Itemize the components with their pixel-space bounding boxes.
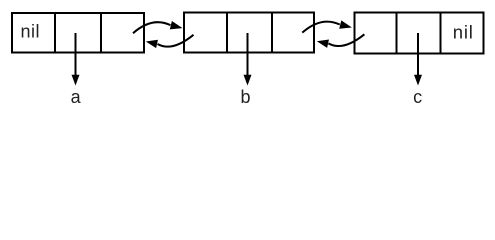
node 3 divider 2 (440, 13, 442, 54)
prev pointer arrow node3 to node2: curve (328, 34, 364, 46)
prev pointer arrow node2 to node1: head (146, 40, 158, 48)
node 2 divider 2 (271, 13, 273, 53)
node 1 divider 1 (54, 13, 56, 53)
node 2 box (184, 13, 314, 53)
svg-text:nil: nil (453, 21, 474, 42)
value arrow node1 to a: head (72, 75, 80, 86)
node 3 divider 1 (396, 13, 398, 54)
value arrow node3 to c: line (417, 33, 419, 76)
value arrow node2 to b: head (244, 75, 252, 86)
next pointer arrow node2 to node3: curve (302, 22, 340, 33)
next pointer arrow node1 to node2: curve (133, 22, 171, 33)
value arrow node1 to a: line (75, 33, 77, 76)
value arrow node3 to c: head (414, 75, 422, 86)
svg-text:c: c (413, 87, 422, 107)
value arrow node2 to b: line (247, 33, 249, 76)
svg-text:a: a (71, 87, 82, 107)
prev pointer arrow node3 to node2: head (317, 39, 329, 47)
node 2 divider 1 (226, 13, 228, 53)
node 1 divider 2 (100, 13, 102, 53)
node 3 box (355, 13, 484, 54)
next pointer arrow node2 to node3: head (339, 20, 352, 28)
next pointer arrow node1 to node2: head (170, 21, 183, 29)
svg-text:b: b (240, 87, 250, 107)
node 1 box (12, 13, 144, 53)
svg-text:nil: nil (20, 22, 40, 42)
prev pointer arrow node2 to node1: curve (158, 35, 194, 47)
